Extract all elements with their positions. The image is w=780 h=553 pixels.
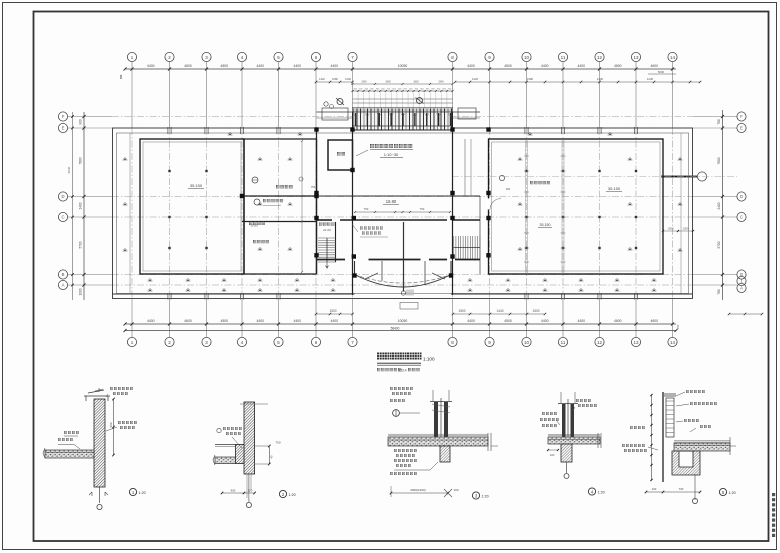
detail 5 left dim line	[651, 395, 653, 480]
svg-text:1:20: 1:20	[289, 493, 296, 497]
svg-text:12: 12	[597, 55, 603, 60]
lintel lines above mullion band	[353, 98, 453, 100]
detail 5 wall axis line	[662, 392, 664, 482]
detail 1 marker circle 1:20	[129, 488, 136, 495]
svg-text:11: 11	[561, 55, 566, 60]
left grid bubbles	[58, 112, 67, 121]
svg-text:14: 14	[670, 55, 676, 60]
detail 3 screed layer lines	[388, 433, 488, 435]
svg-text:A: A	[740, 286, 743, 291]
svg-text:A: A	[62, 283, 65, 288]
svg-text:750: 750	[364, 207, 369, 211]
svg-text:2000(1200): 2000(1200)	[410, 488, 425, 492]
svg-text:14: 14	[670, 340, 676, 345]
detail 2 roof slab	[215, 457, 235, 464]
svg-text:600: 600	[109, 422, 113, 427]
svg-text:35.150: 35.150	[608, 186, 621, 191]
middle-left wing mid walls	[242, 195, 317, 197]
svg-text:1:20: 1:20	[482, 495, 489, 499]
svg-text:4400: 4400	[293, 64, 301, 68]
svg-text:C: C	[61, 215, 64, 220]
detail 3 floor slab	[388, 437, 488, 446]
detail 1 parapet wall (hatched)	[94, 399, 105, 487]
svg-text:900: 900	[79, 119, 83, 125]
svg-text:4600: 4600	[614, 64, 622, 68]
svg-text:700: 700	[679, 487, 684, 491]
svg-text:D: D	[61, 194, 64, 199]
detail 3 beam below slab (hatched)	[440, 446, 450, 462]
svg-text:4400: 4400	[330, 319, 338, 323]
svg-text:1800: 1800	[385, 81, 391, 84]
svg-text:1800: 1800	[413, 81, 419, 84]
svg-text:4600: 4600	[650, 319, 658, 323]
detail 2 wall (hatched)	[244, 402, 255, 474]
detail 4 left labels	[542, 412, 557, 415]
detail 4 stem and circle	[566, 462, 568, 473]
right strip room lines	[464, 139, 466, 196]
core mid walls	[317, 195, 481, 197]
horizontal grid lines	[68, 116, 112, 118]
svg-text:1:100: 1:100	[423, 357, 435, 362]
column dots left hall	[168, 170, 170, 172]
svg-text:4600: 4600	[184, 319, 192, 323]
detail 4 floor slab	[548, 437, 600, 444]
secondary bottom dimension segments	[453, 313, 545, 315]
svg-text:10: 10	[524, 340, 530, 345]
svg-text:9840: 9840	[67, 166, 71, 173]
svg-text:4400: 4400	[577, 64, 585, 68]
terrace outer rectangle (double line)	[113, 128, 693, 299]
svg-text:4400: 4400	[256, 64, 264, 68]
svg-text:21.00: 21.00	[323, 228, 331, 232]
middle wing labels	[252, 177, 258, 183]
svg-text:E: E	[62, 126, 65, 131]
svg-text:1200: 1200	[647, 77, 654, 81]
mullion band right wing	[453, 111, 481, 113]
svg-text:35.150: 35.150	[540, 223, 551, 227]
svg-text:2400: 2400	[79, 202, 83, 209]
vertical grid lines	[131, 62, 133, 128]
mullion band dimension ticks	[353, 90, 453, 92]
svg-text:F: F	[740, 114, 743, 119]
svg-text:250: 250	[506, 187, 511, 191]
svg-text:4400: 4400	[147, 319, 155, 323]
fire door label cluster	[360, 227, 383, 230]
svg-text:1:10~30: 1:10~30	[384, 152, 399, 157]
svg-text:780: 780	[717, 289, 721, 295]
svg-text:1:20: 1:20	[598, 491, 605, 495]
right terrace strip small dims	[663, 230, 693, 232]
section cut marker right	[417, 98, 423, 104]
svg-text:1980: 1980	[527, 77, 534, 81]
svg-text:750: 750	[275, 441, 280, 445]
note text with underline (detail ref)	[370, 144, 412, 148]
bottom dimension line	[125, 323, 676, 325]
svg-text:11: 11	[561, 340, 566, 345]
detail 4 top-right labels	[576, 399, 591, 402]
terrace inner edge lines	[129, 133, 131, 294]
detail 5 gutter (hatched U)	[672, 451, 700, 475]
right stair	[453, 236, 455, 259]
svg-text:750: 750	[420, 207, 425, 211]
svg-text:7800: 7800	[717, 157, 721, 164]
top grid bubbles 1-14	[127, 52, 136, 61]
elevator machine room label	[319, 223, 334, 226]
svg-text:4400: 4400	[467, 64, 475, 68]
right hall walls	[489, 139, 664, 274]
svg-text:4400: 4400	[541, 319, 549, 323]
window tick marks on top/bottom edges	[167, 127, 169, 134]
svg-text:1080: 1080	[332, 77, 338, 81]
center vertical line	[403, 222, 405, 292]
svg-text:10050: 10050	[398, 64, 408, 68]
svg-text:4400: 4400	[293, 319, 301, 323]
right mid bubble B with thick wall mark	[661, 176, 697, 178]
section cut marker left	[337, 99, 343, 105]
detail 5 left labels	[630, 426, 645, 429]
arc center ornament	[401, 291, 405, 295]
svg-text:100: 100	[550, 453, 555, 457]
svg-text:4400: 4400	[467, 319, 475, 323]
water tank room	[328, 140, 353, 170]
svg-text:1500: 1500	[329, 309, 336, 313]
svg-text:223.4: 223.4	[399, 368, 407, 372]
svg-text:4400: 4400	[256, 319, 264, 323]
svg-text:2400: 2400	[717, 202, 721, 209]
svg-text:4600: 4600	[184, 64, 192, 68]
svg-text:4400: 4400	[330, 64, 338, 68]
detail 1 top label	[110, 387, 133, 390]
secondary top dimension row	[455, 81, 700, 83]
detail 3 marker circle 1:20	[472, 492, 479, 499]
detail 5 screed layer lines	[674, 440, 730, 442]
svg-text:780: 780	[717, 119, 721, 125]
svg-text:4400: 4400	[147, 64, 155, 68]
bottom total dimension line	[125, 330, 676, 332]
svg-text:2340: 2340	[361, 81, 367, 84]
svg-text:150: 150	[119, 74, 123, 79]
detail 1 right dim line	[113, 399, 115, 455]
svg-text:10050: 10050	[398, 319, 408, 323]
svg-text:1320: 1320	[319, 77, 325, 81]
svg-text:2340: 2340	[438, 81, 444, 84]
right hall door opening and swing	[487, 199, 490, 210]
detail 4 small dims	[548, 449, 558, 451]
detail 3 left label block	[394, 449, 417, 452]
svg-text:16.80: 16.80	[386, 199, 397, 204]
svg-text:2100: 2100	[597, 77, 604, 81]
top dimension line with ticks	[125, 68, 676, 70]
svg-text:1000: 1000	[79, 288, 83, 295]
detail 3 bottom dim	[391, 492, 448, 494]
bottom grid bubbles 1-14	[127, 337, 136, 346]
svg-text:4400: 4400	[577, 319, 585, 323]
detail 1 bottom stem and grid circle	[99, 487, 101, 503]
detail 2 step upstand (hatched)	[235, 445, 244, 464]
interior joint lines right hall	[525, 139, 527, 274]
svg-text:900: 900	[231, 489, 236, 493]
detail 4 screed layer lines	[548, 433, 600, 435]
svg-text:4500: 4500	[504, 64, 512, 68]
detail 3 column above	[434, 402, 438, 437]
svg-text:1200: 1200	[683, 227, 689, 231]
building bottom double lines	[113, 293, 355, 295]
svg-text:1500: 1500	[532, 309, 539, 313]
svg-text:E: E	[740, 126, 743, 131]
extension hairlines from tick row to band	[352, 93, 354, 109]
core side walls	[352, 130, 354, 295]
detail 4 beam below (hatched)	[561, 444, 572, 462]
svg-text:5700: 5700	[79, 241, 83, 248]
svg-text:4500: 4500	[220, 64, 228, 68]
svg-text:100: 100	[652, 487, 657, 491]
svg-text:4500: 4500	[220, 319, 228, 323]
detail 1 left small label	[64, 431, 79, 434]
detail 5 slab right (concrete)	[674, 443, 730, 451]
detail 1 slab left label	[58, 438, 73, 441]
svg-text:C: C	[740, 215, 743, 220]
left stair	[318, 237, 336, 239]
canopy rect below center	[400, 303, 418, 310]
drawing title	[377, 353, 422, 360]
svg-text:13: 13	[633, 55, 639, 60]
svg-text:4600: 4600	[650, 64, 658, 68]
svg-text:150: 150	[676, 324, 680, 329]
detail 5 parapet pipe	[666, 398, 674, 437]
svg-text:F: F	[62, 114, 65, 119]
svg-text:100: 100	[453, 488, 458, 492]
mullion band left wing	[317, 111, 353, 113]
right edge vertical watermark text	[772, 493, 775, 496]
detail 2 bottom dim and circle	[222, 492, 255, 494]
elevator shaft wall	[335, 222, 337, 262]
right grid bubbles	[737, 112, 746, 121]
right vertical dimension line	[722, 110, 724, 300]
svg-text:120: 120	[248, 489, 253, 493]
svg-text:1:20: 1:20	[729, 491, 736, 495]
svg-text:750: 750	[311, 185, 316, 189]
svg-text:13: 13	[633, 340, 639, 345]
middle-left wing wall	[243, 139, 245, 274]
row B dash line through right hall	[452, 176, 737, 178]
svg-text:1200: 1200	[345, 77, 351, 81]
svg-text:4400: 4400	[541, 64, 549, 68]
svg-text:58400: 58400	[391, 326, 400, 330]
svg-text:35.80: 35.80	[250, 224, 258, 228]
marker A circle in corridor	[499, 175, 504, 180]
door leaf marks	[365, 273, 378, 279]
detail 1 mid-right label	[118, 421, 137, 424]
detail 2 marker circle 1:20	[279, 490, 286, 497]
svg-text:40: 40	[270, 455, 274, 459]
svg-text:12: 12	[597, 340, 603, 345]
detail 3 top-left labels	[390, 387, 413, 390]
left vertical dimension lines	[83, 112, 85, 300]
svg-text:1:20: 1:20	[139, 491, 146, 495]
structural column squares	[350, 127, 354, 131]
detail 5 bottom dim	[646, 491, 700, 493]
detail 5 marker circle 1:20	[719, 488, 726, 495]
column dots right hall	[525, 170, 527, 172]
left hall walls	[140, 139, 244, 274]
svg-text:D: D	[740, 194, 743, 199]
svg-text:4600: 4600	[614, 319, 622, 323]
svg-text:7800: 7800	[79, 157, 83, 164]
entrance arc solid	[355, 275, 452, 288]
svg-text:10: 10	[524, 55, 530, 60]
slope tick marks	[123, 157, 128, 160]
svg-text:1500: 1500	[458, 309, 465, 313]
detail 5 right labels with leaders	[686, 390, 705, 393]
middle-left wing top and bottom walls	[242, 138, 317, 140]
detail 1 coping	[84, 390, 110, 401]
detail 2 bottom extension lines	[246, 474, 248, 498]
detail 4 column above	[562, 404, 566, 437]
svg-text:5600: 5600	[658, 70, 665, 74]
svg-text:1000: 1000	[668, 227, 674, 231]
wing vertical dim line	[301, 141, 303, 272]
bay mullion lines	[381, 261, 383, 281]
subtitle note	[377, 368, 401, 371]
detail 1 roof slab (concrete)	[45, 450, 94, 458]
small dim row above core wall	[355, 211, 450, 213]
svg-text:5700: 5700	[717, 241, 721, 248]
detail 2 left label with marker	[217, 428, 221, 432]
svg-text:4500: 4500	[504, 319, 512, 323]
core bottom wall with door gaps	[317, 259, 346, 261]
mullion band (louver strip)	[353, 108, 453, 130]
svg-text:35.150: 35.150	[190, 183, 203, 188]
entrance arc dashed	[355, 275, 452, 284]
detail 4 marker circle 1:20	[588, 488, 595, 495]
detail 2 right dim	[268, 446, 270, 464]
svg-text:B: B	[62, 272, 65, 277]
svg-text:1440: 1440	[496, 309, 503, 313]
svg-text:1320: 1320	[472, 77, 479, 81]
